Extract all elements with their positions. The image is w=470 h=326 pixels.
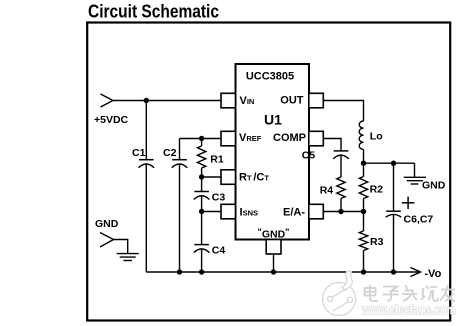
wire Lo node to GND: [364, 162, 415, 164]
svg-text:C5: C5: [302, 150, 316, 162]
capacitor C3: [194, 177, 226, 212]
node R3 on rail: [361, 269, 366, 274]
svg-text:VREF: VREF: [239, 132, 262, 144]
svg-text:R4: R4: [320, 185, 334, 197]
ground (right earth symbol): [404, 163, 446, 191]
svg-text:Lo: Lo: [370, 131, 383, 143]
-Vo output arrow: [411, 268, 442, 281]
capacitor C1: [132, 101, 154, 273]
svg-text:GND: GND: [422, 180, 446, 192]
svg-text:ISNS: ISNS: [240, 207, 258, 219]
svg-text:U1: U1: [264, 112, 282, 128]
wire VREF row: [180, 138, 222, 140]
svg-text:VIN: VIN: [240, 95, 255, 107]
ground (left earth symbol): [117, 254, 139, 261]
pin box ISNS: [221, 204, 236, 219]
svg-text:E/A-: E/A-: [283, 207, 305, 219]
pin box RT/CT: [221, 170, 236, 185]
watermark text 电子发烧友: [365, 285, 456, 301]
inductor Lo: [359, 121, 382, 163]
svg-text:Circuit Schematic: Circuit Schematic: [88, 2, 219, 22]
node IC GND on rail: [271, 269, 276, 274]
node R4 bottom: [338, 209, 343, 214]
svg-text:www.elecfans.com: www.elecfans.com: [361, 303, 456, 317]
capacitor C2: [163, 139, 187, 273]
pin box OUT: [309, 93, 324, 108]
svg-text:+5VDC: +5VDC: [94, 114, 129, 126]
wire OUT to Lo: [323, 101, 363, 122]
pin box GND: [266, 240, 281, 255]
pin box VIN: [221, 93, 236, 108]
watermark logo (elecfans): [323, 271, 356, 315]
resistor R1: [197, 139, 223, 178]
op-amp U1 (UCC3805 IC body): [236, 64, 310, 240]
wire GND input to ground: [114, 240, 128, 254]
capacitor C5: [302, 150, 349, 178]
wire +5VDC to VIN: [113, 100, 221, 102]
resistor R2: [359, 163, 383, 211]
pin box E/A-: [309, 204, 324, 219]
svg-text:COMP: COMP: [273, 132, 306, 144]
GND input connector: [95, 218, 119, 247]
svg-text:R2: R2: [370, 184, 384, 196]
node C1 tap: [144, 98, 149, 103]
node C3 bottom / C4 top: [199, 209, 204, 214]
svg-text:C3: C3: [212, 192, 226, 204]
node R1 bottom / C3 top: [199, 174, 204, 179]
node C4 on rail: [199, 269, 204, 274]
node R1 top: [199, 136, 204, 141]
capacitor C4: [194, 212, 226, 273]
svg-text:C6,C7: C6,C7: [404, 214, 434, 226]
wire ISNS row: [202, 211, 221, 213]
svg-text:GND: GND: [95, 218, 119, 230]
resistor R3: [359, 212, 383, 273]
svg-text:"GND": "GND": [258, 227, 290, 241]
wire bottom rail: [146, 271, 419, 273]
svg-text:RT/CT: RT/CT: [239, 172, 269, 184]
svg-text:C4: C4: [212, 245, 226, 257]
node C2 on rail: [177, 269, 182, 274]
node C6,C7 top: [391, 161, 396, 166]
svg-text:R3: R3: [370, 236, 384, 248]
wire RT/CT row: [202, 176, 221, 178]
wire E/A- row: [323, 211, 363, 213]
node C6,C7 on rail: [391, 269, 396, 274]
node Lo bottom / R2 top: [361, 161, 366, 166]
capacitor C6,C7: [386, 163, 434, 272]
+5VDC input connector: [94, 94, 129, 126]
svg-text:OUT: OUT: [280, 95, 304, 107]
pin box VREF: [221, 131, 236, 146]
svg-text:R1: R1: [210, 154, 224, 166]
wire COMP to C5: [323, 139, 341, 151]
svg-text:-Vo: -Vo: [424, 268, 441, 280]
wire IC GND pin to rail: [273, 254, 275, 272]
svg-text:UCC3805: UCC3805: [246, 71, 294, 83]
node R2 bottom / R3 top: [361, 209, 366, 214]
pin box COMP: [309, 131, 324, 146]
resistor R4: [320, 177, 346, 212]
svg-text:C1: C1: [132, 147, 146, 159]
svg-text:C2: C2: [163, 147, 177, 159]
